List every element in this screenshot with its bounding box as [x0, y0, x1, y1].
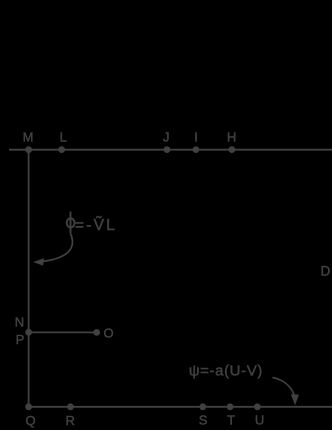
node Q junction [25, 403, 32, 410]
wire left vertical [28, 150, 30, 407]
svg-text:Q: Q [26, 413, 36, 428]
svg-text:ψ=-a(U-V): ψ=-a(U-V) [189, 363, 263, 380]
svg-text:L: L [60, 130, 67, 145]
node J [164, 146, 171, 153]
node T [227, 403, 234, 410]
svg-text:O: O [104, 326, 114, 341]
node L [58, 146, 65, 153]
svg-text:U: U [255, 413, 264, 428]
arrow from phi label to left wire [33, 234, 72, 266]
wire top bus [9, 149, 332, 151]
node N/P junction [25, 329, 32, 336]
svg-text:J: J [163, 130, 170, 145]
node U [254, 403, 261, 410]
svg-text:T: T [227, 413, 235, 428]
node S [199, 403, 206, 410]
value label phi symbol [67, 212, 75, 234]
wire stub to node O [29, 331, 97, 333]
svg-text:S: S [199, 413, 208, 428]
arrow from psi label to bottom wire [273, 378, 300, 406]
svg-text:N: N [15, 315, 24, 330]
svg-text:=-ṼL: =-ṼL [75, 214, 117, 234]
svg-text:R: R [66, 413, 75, 428]
node O [93, 329, 100, 336]
svg-text:I: I [194, 130, 198, 145]
node H [229, 146, 236, 153]
node R [67, 403, 74, 410]
svg-text:P: P [16, 332, 25, 347]
svg-text:M: M [23, 130, 34, 145]
node I [193, 146, 200, 153]
wire bottom bus [29, 406, 332, 408]
svg-text:H: H [227, 130, 236, 145]
svg-text:D: D [320, 263, 330, 278]
node M [25, 146, 32, 153]
